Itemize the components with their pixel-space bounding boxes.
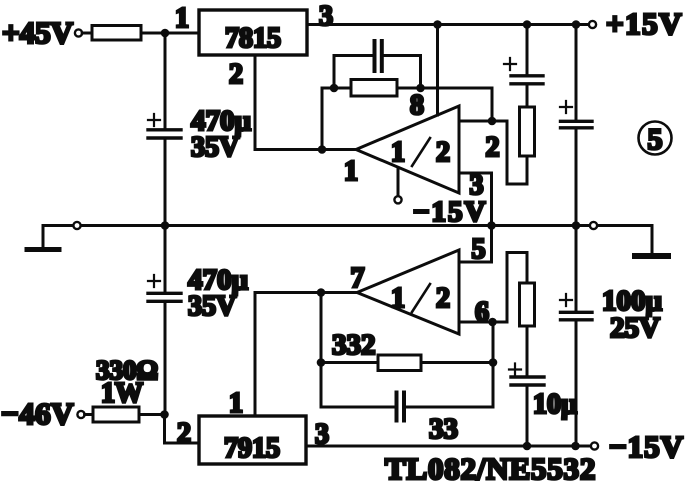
wire feedback row to inverting input node <box>397 88 492 121</box>
wire C5 to -46V node <box>164 303 167 415</box>
node +45V input terminal <box>2 15 82 50</box>
svg-text:5: 5 <box>648 123 663 156</box>
ground right symbol <box>635 226 668 257</box>
svg-text:2: 2 <box>229 59 243 90</box>
wire -15V bottom rail <box>306 445 591 448</box>
figure number circled 5 <box>639 122 672 157</box>
wire junction to U2 pin 2 <box>165 415 200 444</box>
svg-text:10μ: 10μ <box>533 389 577 420</box>
svg-text:5: 5 <box>472 234 486 265</box>
wire C6 to bottom rail <box>526 387 529 447</box>
regulator U1 7815 <box>199 10 307 55</box>
node +15V output terminal <box>589 6 683 41</box>
node mid rail / C4 <box>572 221 581 230</box>
wire op-amp pin 4 V- stub <box>397 168 400 196</box>
resistor R2 (feedback) <box>351 80 397 97</box>
wire feedback2 right rail <box>492 322 495 407</box>
node feedback2 right <box>489 358 498 367</box>
node top rail / C4 <box>572 20 581 29</box>
node op1 output junction <box>318 145 327 154</box>
wire feedback2 left rail <box>320 293 323 408</box>
svg-text:1: 1 <box>344 156 358 187</box>
svg-text:7815: 7815 <box>225 23 281 54</box>
resistor R3 (vertical, to +15V via C3) <box>520 107 535 156</box>
wire R4 to junction <box>139 413 165 416</box>
svg-text:−46V: −46V <box>1 396 74 431</box>
svg-text:1: 1 <box>229 388 243 419</box>
svg-text:35V: 35V <box>191 132 239 163</box>
wire C2 branch left <box>334 56 374 89</box>
wire ground mid rail <box>43 224 652 227</box>
svg-text:+45V: +45V <box>2 15 74 50</box>
node V- terminal circle <box>394 196 401 203</box>
svg-text:3: 3 <box>319 1 333 32</box>
wire -46V terminal to R4 <box>85 413 93 416</box>
wire left vertical from +45V node down <box>164 33 167 128</box>
capacitor C1 470u/35V (electrolytic) <box>148 130 181 138</box>
svg-text:1: 1 <box>175 3 189 34</box>
capacitor C5 470u/35V (electrolytic lower) <box>148 293 181 301</box>
resistor R6 332 (feedback) <box>332 329 421 371</box>
node -46V input terminal <box>1 396 85 431</box>
capacitor C8 100u/25V (electrolytic -15V filter) <box>561 312 593 320</box>
node feedback right <box>416 84 425 93</box>
wire R6 row <box>321 361 493 364</box>
svg-text:+15V: +15V <box>606 6 683 41</box>
node mid rail / op-amp inputs <box>487 221 496 230</box>
node pin2 junction <box>488 117 497 126</box>
svg-text:332: 332 <box>332 329 376 361</box>
svg-text:2: 2 <box>177 418 191 449</box>
node -46V junction <box>160 410 169 419</box>
wire R3 top to C3 <box>526 86 529 108</box>
resistor R5 (vertical, to -15V via C6) <box>520 283 535 326</box>
polarity + of C6 <box>509 364 521 376</box>
polarity + of C5 <box>148 275 160 287</box>
node right ground terminal circle <box>590 222 597 229</box>
wire +15V top rail <box>307 23 589 26</box>
polarity + of C4 <box>560 101 572 113</box>
wire op-amp pin 2 inverting input <box>459 120 507 123</box>
node -15V output terminal <box>591 429 684 464</box>
resistor R1 (+45V series dropper) <box>92 26 141 41</box>
wire op-amp pin 3 to ground rail and pin 5 <box>459 173 492 262</box>
op-amp U3B triangle <box>357 250 459 334</box>
wire op-amp pin 6 inverting input <box>459 321 507 324</box>
node feedback left <box>330 84 339 93</box>
svg-text:2: 2 <box>486 132 500 163</box>
node top rail / op-amp V+ <box>433 20 442 29</box>
svg-text:25V: 25V <box>610 312 660 344</box>
wire feedback left rail <box>322 88 351 150</box>
node bottom rail / C8 <box>571 442 580 451</box>
wire dogleg to R3 <box>507 121 527 184</box>
svg-text:8: 8 <box>410 90 424 121</box>
wire R5 bottom to C6 <box>526 326 529 375</box>
polarity + of C8 <box>560 294 572 306</box>
regulator U2 7915 <box>199 416 306 464</box>
svg-text:7915: 7915 <box>224 433 280 464</box>
polarity + of C3 <box>504 58 516 70</box>
wire +45V terminal to resistor R1 <box>82 32 92 35</box>
svg-text:6: 6 <box>475 297 489 328</box>
node feedback2 left <box>317 358 326 367</box>
wire U2 pin 1 (gnd pin) to op-amp 2 output <box>255 293 357 417</box>
svg-text:TL082/NE5532: TL082/NE5532 <box>385 451 596 486</box>
wire C8 to bottom rail <box>575 322 578 447</box>
capacitor C6 10u (electrolytic) <box>511 377 544 385</box>
svg-text:33: 33 <box>429 413 458 445</box>
wire U1 pin 2 (gnd pin) to op-amp output <box>255 55 356 150</box>
ground left symbol <box>27 226 59 250</box>
op-amp U3A triangle <box>356 106 459 193</box>
wire op-amp U3 pin 8 V+ <box>436 25 439 116</box>
node op2 output junction <box>317 288 326 297</box>
svg-text:1W: 1W <box>101 378 143 409</box>
polarity + of C1 <box>148 114 160 126</box>
wire C4 upper branch <box>575 25 578 120</box>
node left ground terminal circle <box>73 222 80 229</box>
capacitor C7 33 (feedback) <box>397 393 405 421</box>
node pin6 junction <box>488 318 497 327</box>
wire C1 to mid rail and down <box>164 140 167 293</box>
wire C4 lower branch from mid rail <box>575 226 578 311</box>
node mid rail / C1 lower <box>161 221 170 230</box>
wire C2 branch right <box>382 56 421 89</box>
wire R1 to 7815 input pin 1 <box>141 32 199 35</box>
wire C3 to top rail <box>526 25 529 75</box>
svg-text:−15V: −15V <box>609 429 684 464</box>
capacitor C2 (feedback) <box>375 41 382 71</box>
svg-text:3: 3 <box>470 170 484 201</box>
capacitor C3 (electrolytic) <box>511 76 543 84</box>
wire C7 row right <box>404 406 493 409</box>
svg-text:35V: 35V <box>188 291 236 322</box>
wire dogleg to R5 <box>507 253 527 323</box>
wire C4 to mid rail <box>575 130 578 226</box>
node junction +45V / C1 <box>161 29 170 38</box>
node top rail / C3 <box>523 20 532 29</box>
wire C7 row left <box>321 406 396 409</box>
capacitor C4 (electrolytic +15V filter) <box>561 121 593 128</box>
node bottom rail / C6 <box>523 442 532 451</box>
resistor R4 330ohm 1W <box>93 355 158 422</box>
